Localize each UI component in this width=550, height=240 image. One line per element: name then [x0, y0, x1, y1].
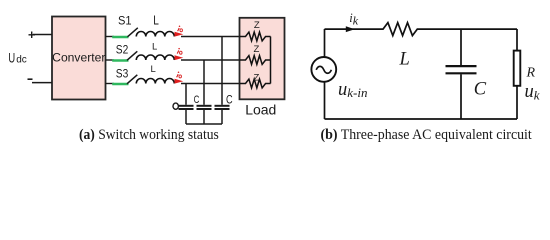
- svg-text:Z: Z: [254, 20, 260, 31]
- switch S1 blade: [128, 28, 138, 37]
- inductor L phase C: [136, 79, 174, 84]
- right branch upper wire: [516, 29, 518, 51]
- capacitor 2 lower wire: [203, 110, 205, 125]
- inductor L phase A: [136, 32, 174, 37]
- phase B wire to load: [181, 59, 240, 61]
- svg-text:(b) Three-phase AC equivalent: (b) Three-phase AC equivalent circuit: [321, 127, 532, 143]
- phase C wire stub from converter: [106, 83, 115, 85]
- capacitor tap wire from phase C: [185, 84, 187, 105]
- svg-text:R: R: [526, 65, 536, 80]
- ia label: [178, 25, 183, 31]
- load resistor Z phase B: [240, 56, 271, 65]
- dc minus terminal wire: [32, 82, 52, 84]
- neutral terminal circle: [173, 103, 178, 109]
- inductor L phase B: [136, 55, 174, 60]
- load resistor Z phase A: [240, 32, 271, 41]
- svg-text:Load: Load: [245, 102, 276, 118]
- filter capacitor 2 plates: [197, 105, 212, 107]
- svg-text:L: L: [152, 42, 157, 53]
- switch S3 blade: [127, 75, 137, 84]
- svg-text:dc: dc: [16, 55, 27, 66]
- svg-text:ik: ik: [349, 11, 358, 27]
- right branch lower wire: [516, 86, 518, 119]
- capacitor C plates: [446, 65, 477, 67]
- resistor R box: [514, 51, 521, 86]
- phase A wire stub from converter: [106, 36, 115, 38]
- svg-text:Converter: Converter: [52, 50, 105, 64]
- current arrow ib: [175, 55, 184, 60]
- phase A green highlight segment: [112, 36, 128, 39]
- load box: [240, 18, 285, 100]
- svg-text:S3: S3: [116, 67, 129, 81]
- switch S2 blade: [127, 51, 137, 60]
- capacitor common bottom rail: [186, 123, 222, 125]
- capacitor tap wire from phase B: [203, 60, 205, 105]
- bottom wire of equivalent circuit: [325, 118, 518, 120]
- plus sign: [29, 32, 36, 39]
- left wire from source to top: [324, 29, 326, 58]
- svg-text:S2: S2: [116, 43, 129, 57]
- current arrow ic: [175, 79, 184, 84]
- svg-text:uk: uk: [525, 82, 540, 102]
- svg-text:L: L: [399, 50, 410, 70]
- load neutral vertical wire: [270, 37, 272, 84]
- svg-text:C: C: [226, 93, 233, 107]
- sine wave inside source: [316, 66, 331, 73]
- phase C green highlight segment: [112, 83, 128, 86]
- capacitor 1 lower wire: [185, 110, 187, 125]
- ic label: [177, 72, 182, 78]
- svg-text:C: C: [474, 80, 487, 100]
- filter capacitor 1 plates: [179, 105, 194, 107]
- load resistor Z phase C: [240, 79, 271, 88]
- svg-text:Z: Z: [254, 72, 260, 83]
- AC source U k-in: [311, 57, 336, 82]
- top wire with inductor zigzag: [325, 23, 518, 36]
- svg-text:L: L: [151, 64, 156, 75]
- phase B wire stub from converter: [106, 59, 115, 61]
- svg-text:C: C: [194, 94, 200, 106]
- dc plus terminal wire: [33, 34, 52, 36]
- current arrow ik: [346, 26, 355, 32]
- left wire from source bottom: [324, 81, 326, 119]
- current arrow ia: [175, 32, 184, 37]
- capacitor branch lower wire: [460, 74, 462, 119]
- capacitor 3 lower wire: [221, 110, 223, 125]
- minus sign: [28, 78, 33, 80]
- phase C wire to load: [181, 83, 240, 85]
- filter capacitor 3 plates: [215, 105, 230, 107]
- capacitor tap wire from phase A: [221, 37, 223, 105]
- phase A wire to load: [181, 36, 240, 38]
- svg-text:U: U: [8, 50, 15, 67]
- svg-text:(a) Switch working status: (a) Switch working status: [79, 127, 219, 143]
- svg-text:uk-in: uk-in: [338, 80, 367, 100]
- phase B green highlight segment: [112, 59, 128, 62]
- capacitor branch upper wire: [460, 29, 462, 65]
- svg-text:S1: S1: [118, 13, 132, 27]
- ib label: [177, 48, 182, 54]
- converter box: [52, 17, 106, 100]
- svg-text:Z: Z: [254, 44, 260, 55]
- svg-text:L: L: [153, 14, 159, 28]
